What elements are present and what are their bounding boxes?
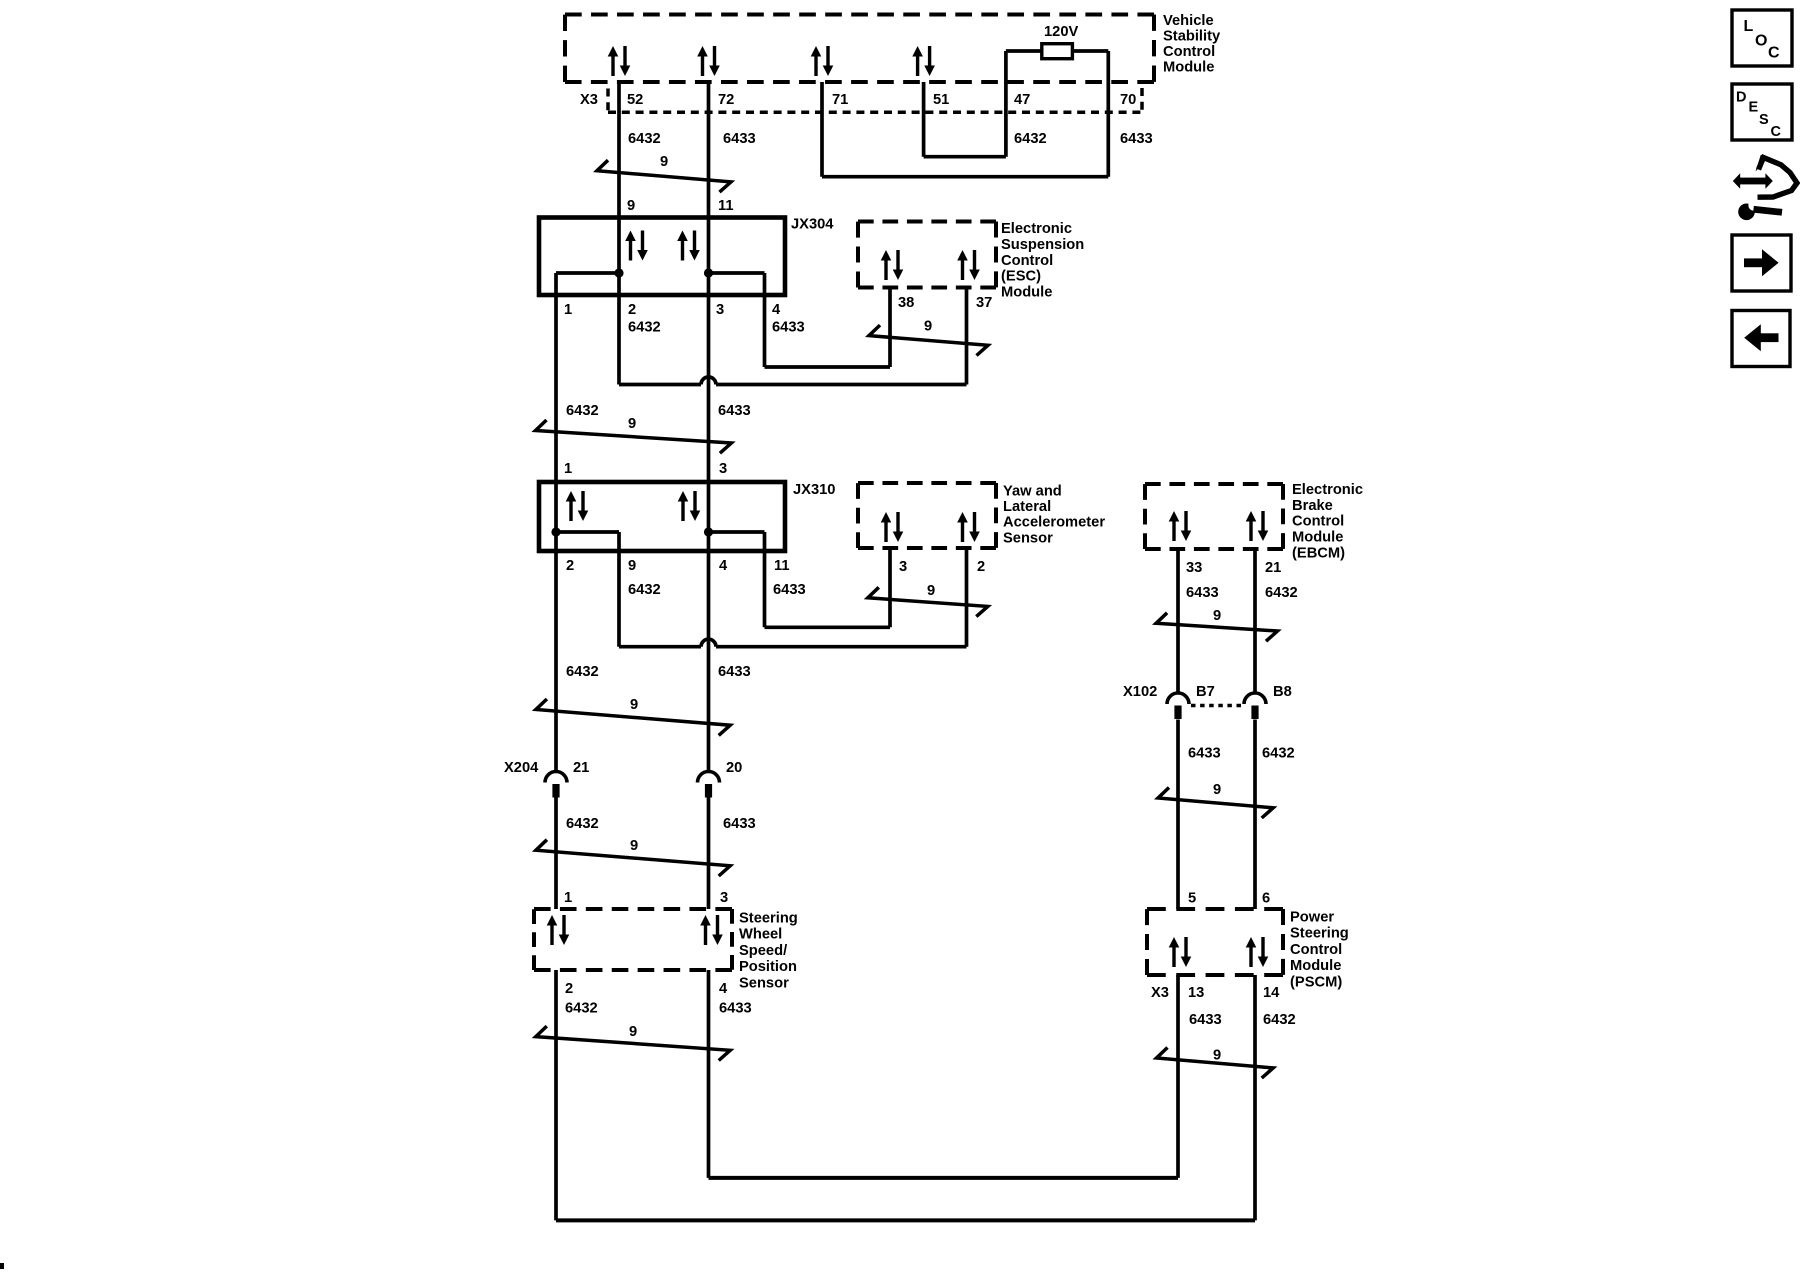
svg-text:6432: 6432 (1265, 585, 1298, 601)
svg-text:9: 9 (1213, 782, 1221, 798)
icon box left-arrow (1732, 311, 1790, 367)
module U1: Vehicle Stability Control Module (dashed box) (565, 13, 1154, 17)
wire: JX304 internal bus pin3-pin4 (709, 271, 765, 275)
stray print mark bottom-left (0, 1263, 4, 1269)
svg-text:Steering: Steering (739, 911, 798, 927)
data arrows at PSCM pin 14 (1246, 937, 1269, 967)
svg-text:4: 4 (772, 302, 781, 318)
svg-text:11: 11 (774, 558, 790, 574)
data arrows at steering pin 1 (547, 915, 570, 945)
wire: 6432 steering pin 2 down to bottom bus (554, 970, 558, 1220)
svg-text:(PSCM): (PSCM) (1290, 974, 1342, 990)
wire: circuit 6432 pin 52 down through JX304 to ESC junction level (617, 82, 621, 385)
data arrows at PSCM pin 13 (1169, 937, 1192, 967)
wire: JX310 pin 11 drop (6433) (763, 532, 767, 627)
svg-text:L: L (1744, 18, 1754, 35)
data arrows in JX310 right (678, 491, 701, 521)
svg-text:Control: Control (1001, 253, 1053, 269)
svg-text:6432: 6432 (628, 320, 661, 336)
svg-text:1: 1 (564, 890, 572, 906)
svg-text:6432: 6432 (628, 582, 661, 598)
svg-text:X3: X3 (580, 92, 598, 108)
svg-text:47: 47 (1014, 92, 1030, 108)
svg-text:6433: 6433 (772, 320, 805, 336)
svg-text:6433: 6433 (1189, 1012, 1222, 1028)
svg-text:2: 2 (565, 981, 573, 997)
svg-text:11: 11 (718, 198, 734, 214)
svg-text:9: 9 (927, 583, 935, 599)
svg-text:Module: Module (1292, 530, 1343, 546)
svg-text:9: 9 (628, 558, 636, 574)
svg-text:Electronic: Electronic (1001, 221, 1072, 237)
junction node at JX304 pin 3 (704, 268, 713, 277)
svg-text:Brake: Brake (1292, 498, 1333, 514)
wire: Yaw pin 2 drop (965, 548, 969, 647)
svg-text:3: 3 (716, 302, 724, 318)
svg-text:Control: Control (1163, 44, 1215, 60)
svg-text:6433: 6433 (719, 1001, 752, 1017)
wire: JX304 pin 1 drop (6432) (554, 273, 558, 772)
wire: JX310 pin11 to Yaw pin 3 horizontal (6433) (765, 625, 891, 629)
svg-text:1: 1 (564, 302, 572, 318)
wire: JX304 pin 4 drop (6433) (763, 273, 767, 367)
svg-text:13: 13 (1188, 985, 1204, 1001)
module U3: Yaw and Lateral Accelerometer Sensor (dashed box) (858, 481, 996, 485)
svg-text:3: 3 (899, 559, 907, 575)
svg-text:B7: B7 (1196, 684, 1215, 700)
connector X204 terminal 21 (545, 772, 567, 783)
svg-text:(ESC): (ESC) (1001, 269, 1041, 285)
svg-text:6432: 6432 (1263, 1012, 1296, 1028)
svg-text:B8: B8 (1273, 684, 1292, 700)
svg-text:Electronic: Electronic (1292, 482, 1363, 498)
svg-text:6432: 6432 (566, 664, 599, 680)
wire: JX310 internal bus pin3-pin11 (709, 530, 765, 534)
wire: 6433 X204 to steering sensor pin 3 (707, 798, 711, 910)
svg-text:C: C (1768, 45, 1780, 62)
wire: JX310 pin9 to Yaw pin 2 horizontal with hop (6432) (619, 645, 701, 649)
svg-text:37: 37 (976, 295, 992, 311)
wire: JX310 pin 9 drop (6432) (617, 532, 621, 647)
svg-text:2: 2 (566, 558, 574, 574)
svg-text:6433: 6433 (723, 816, 756, 832)
wire: resistor right lead to pin 70 (1072, 49, 1108, 53)
svg-text:Suspension: Suspension (1001, 237, 1084, 253)
data arrows in JX310 left (566, 491, 589, 521)
svg-text:6432: 6432 (1262, 746, 1295, 762)
svg-text:3: 3 (719, 461, 727, 477)
wire: 6433 from X102 B7 to PSCM pin 5 (1176, 720, 1180, 910)
twisted-pair symbol below EBCM (1156, 613, 1277, 641)
svg-text:Stability: Stability (1163, 29, 1221, 45)
wire: JX304 pin2 to ESC pin 37 horizontal with hop (6432) (619, 383, 701, 387)
junction block JX310 (solid box) (539, 482, 785, 551)
data arrows at steering pin 3 (700, 915, 723, 945)
twisted-pair symbol above steering sensor (536, 840, 730, 876)
svg-text:51: 51 (933, 92, 949, 108)
wire: PSCM pin 14 down to bottom bus (1253, 975, 1257, 1220)
svg-text:6432: 6432 (628, 131, 661, 147)
twisted-pair symbol above X204 (536, 699, 730, 735)
icon box DESC (1732, 84, 1792, 140)
svg-text:21: 21 (1265, 560, 1281, 576)
svg-text:6433: 6433 (718, 403, 751, 419)
data arrows at pin 71 (811, 46, 834, 76)
module U5: Steering Wheel Speed/Position Sensor (dashed box) (534, 907, 732, 911)
svg-text:4: 4 (719, 981, 728, 997)
svg-text:9: 9 (1213, 1048, 1221, 1064)
twisted-pair symbol below steering sensor (536, 1026, 730, 1060)
svg-text:X204: X204 (504, 760, 539, 776)
wire: JX310 internal bus pin1-pin9 (556, 530, 619, 534)
twisted-pair symbol below PSCM (1157, 1048, 1274, 1079)
svg-text:Accelerometer: Accelerometer (1003, 515, 1105, 531)
svg-text:4: 4 (719, 558, 728, 574)
wire: JX304 pin4 to ESC pin 38 horizontal (6433) (765, 365, 891, 369)
svg-text:X102: X102 (1123, 684, 1157, 700)
junction node at JX304 pin 2 (614, 268, 623, 277)
svg-text:Power: Power (1290, 910, 1334, 926)
wire: pin 47 vertical (1004, 51, 1008, 157)
wire: PSCM pin 13 down to bottom bus (1176, 975, 1180, 1178)
wire: pin 70 vertical (1106, 51, 1110, 177)
module U4: Electronic Brake Control Module (EBCM) (dashed box) (1145, 482, 1283, 486)
connector X204 terminal 20 (698, 772, 720, 783)
wire: JX304 internal bus pin1-pin2 (556, 271, 619, 275)
twisted-pair symbol above PSCM (1158, 788, 1273, 819)
svg-text:38: 38 (898, 295, 914, 311)
svg-text:6433: 6433 (1186, 585, 1219, 601)
svg-text:S: S (1759, 112, 1769, 128)
svg-text:6: 6 (1262, 891, 1270, 907)
twisted-pair symbol between JX304 and JX310 (536, 420, 732, 453)
junction node at JX310 pin 1 (551, 527, 560, 536)
svg-text:C: C (1771, 124, 1782, 140)
wire: ESC pin 38 drop (888, 288, 892, 368)
svg-text:6432: 6432 (566, 816, 599, 832)
svg-text:5: 5 (1188, 891, 1196, 907)
wire: bottom bus 6432 (steering pin2 to PSCM pin14) (556, 1218, 1255, 1222)
data arrows in JX304 left (625, 231, 648, 261)
junction node at JX310 pin 3 (704, 527, 713, 536)
svg-text:52: 52 (627, 92, 643, 108)
svg-text:14: 14 (1263, 985, 1280, 1001)
svg-text:Lateral: Lateral (1003, 499, 1051, 515)
svg-text:Sensor: Sensor (1003, 530, 1053, 546)
svg-text:3: 3 (720, 890, 728, 906)
wire: ESC pin 37 drop (965, 288, 969, 385)
module U6: Power Steering Control Module (PSCM) (dashed box) (1147, 907, 1283, 911)
svg-text:72: 72 (718, 92, 734, 108)
svg-text:Module: Module (1290, 958, 1341, 974)
wire: 6432 from X102 B8 to PSCM pin 6 (1253, 720, 1257, 910)
svg-text:6433: 6433 (718, 664, 751, 680)
svg-text:Control: Control (1290, 942, 1342, 958)
connector X102 terminal B8 (1244, 693, 1266, 704)
svg-text:D: D (1736, 90, 1746, 106)
data arrows at Yaw pin 3 (881, 512, 904, 542)
wire: pin 51 drop (922, 82, 926, 157)
svg-text:9: 9 (924, 319, 932, 335)
data arrows at pin 52 (608, 46, 631, 76)
connector X102 terminal B7 (1167, 693, 1189, 704)
svg-text:2: 2 (977, 559, 985, 575)
svg-text:21: 21 (573, 760, 589, 776)
svg-text:120V: 120V (1044, 24, 1079, 40)
twisted-pair symbol at Yaw (3/2) (868, 587, 988, 616)
connector X3 strip of Vehicle Stability Control Module (606, 89, 610, 112)
svg-text:Vehicle: Vehicle (1163, 13, 1214, 29)
svg-text:9: 9 (630, 697, 638, 713)
wire: 6432 X204 to steering sensor pin 1 (554, 798, 558, 910)
data arrows at ESC pin 37 (957, 250, 980, 280)
svg-text:33: 33 (1186, 560, 1202, 576)
svg-text:Sensor: Sensor (739, 975, 789, 991)
svg-text:6433: 6433 (773, 582, 806, 598)
svg-text:70: 70 (1120, 92, 1136, 108)
wire: pin 71 drop (820, 82, 824, 177)
svg-text:9: 9 (630, 838, 638, 854)
svg-text:6432: 6432 (1014, 131, 1047, 147)
module U2: Electronic Suspension Control (ESC) Module (dashed box) (858, 220, 996, 224)
junction block JX304 (solid box) (539, 218, 785, 296)
twisted-pair symbol under module (52/72) (597, 160, 731, 192)
svg-text:O: O (1755, 33, 1767, 50)
data arrows in JX304 right (677, 231, 700, 261)
svg-text:6433: 6433 (723, 131, 756, 147)
icon double-arrow with loop and wrench (1733, 155, 1797, 220)
svg-text:6433: 6433 (1120, 131, 1153, 147)
data arrows at EBCM pin 33 (1169, 511, 1192, 541)
svg-text:Wheel: Wheel (739, 927, 782, 943)
svg-text:9: 9 (629, 1024, 637, 1040)
icon box LOC (1732, 10, 1792, 66)
svg-text:JX304: JX304 (791, 217, 834, 233)
data arrows at pin 72 (697, 46, 720, 76)
wire: EBCM pin 21 down to X102 B8 (1253, 549, 1257, 693)
svg-text:X3: X3 (1151, 985, 1169, 1001)
wire: EBCM pin 33 down to X102 B7 (1176, 549, 1180, 693)
svg-text:Speed/: Speed/ (739, 943, 787, 959)
wire: jumper 51 to 47 horizontal (924, 155, 1006, 159)
wire: resistor left lead to pin 47 (1006, 49, 1042, 53)
svg-text:Module: Module (1001, 285, 1052, 301)
svg-text:E: E (1749, 100, 1759, 116)
svg-text:9: 9 (1213, 608, 1221, 624)
connector X102 dotted link (1191, 704, 1242, 707)
wire: jumper 71 to 70 horizontal (822, 175, 1108, 179)
svg-text:Control: Control (1292, 514, 1344, 530)
svg-text:9: 9 (627, 198, 635, 214)
svg-text:Position: Position (739, 959, 797, 975)
svg-text:6433: 6433 (1188, 746, 1221, 762)
data arrows at pin 51 (912, 46, 935, 76)
twisted-pair symbol at ESC (38/37) (869, 325, 988, 355)
svg-text:Steering: Steering (1290, 926, 1349, 942)
svg-text:6432: 6432 (566, 403, 599, 419)
svg-text:71: 71 (832, 92, 848, 108)
svg-text:6432: 6432 (565, 1001, 598, 1017)
resistor 120V (bus termination) inside module (1042, 44, 1073, 59)
svg-text:Yaw and: Yaw and (1003, 484, 1062, 500)
svg-text:9: 9 (660, 154, 668, 170)
wire: 6433 steering pin 4 down to bottom bus (707, 970, 711, 1178)
wire: bottom bus 6433 (steering pin4 to PSCM pin13) (709, 1176, 1179, 1180)
svg-text:9: 9 (628, 416, 636, 432)
data arrows at EBCM pin 21 (1246, 511, 1269, 541)
wire: circuit 6433 pin 72 down through JX304/JX310 to X204 (707, 82, 711, 772)
svg-text:Module: Module (1163, 60, 1214, 76)
icon box right-arrow (1732, 235, 1791, 291)
data arrows at ESC pin 38 (881, 250, 904, 280)
svg-text:JX310: JX310 (793, 482, 835, 498)
data arrows at Yaw pin 2 (957, 512, 980, 542)
svg-text:1: 1 (564, 461, 572, 477)
svg-text:(EBCM): (EBCM) (1292, 545, 1345, 561)
svg-text:20: 20 (726, 760, 742, 776)
wire: Yaw pin 3 drop (888, 548, 892, 627)
svg-text:2: 2 (628, 302, 636, 318)
